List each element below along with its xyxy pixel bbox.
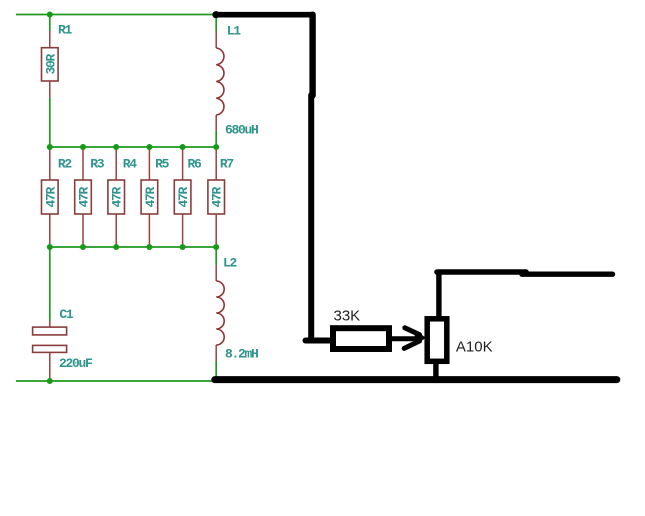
svg-text:L1: L1 [227, 24, 242, 39]
svg-text:680uH: 680uH [225, 123, 258, 138]
svg-text:30R: 30R [43, 53, 58, 74]
svg-text:47R: 47R [143, 186, 158, 207]
svg-text:A10K: A10K [456, 338, 493, 355]
svg-text:47R: 47R [43, 186, 58, 207]
svg-text:R3: R3 [90, 157, 105, 172]
svg-text:33K: 33K [334, 307, 361, 324]
svg-text:R4: R4 [123, 157, 138, 172]
svg-text:R6: R6 [188, 157, 203, 172]
svg-text:R5: R5 [155, 157, 170, 172]
svg-text:C1: C1 [59, 307, 74, 322]
svg-text:R7: R7 [220, 157, 234, 172]
svg-text:R2: R2 [58, 157, 73, 172]
svg-text:220uF: 220uF [59, 356, 93, 371]
svg-text:R1: R1 [58, 23, 73, 38]
svg-text:8.2mH: 8.2mH [225, 347, 258, 362]
svg-text:L2: L2 [223, 256, 238, 271]
svg-text:47R: 47R [176, 186, 191, 207]
svg-text:47R: 47R [77, 186, 92, 207]
svg-text:47R: 47R [210, 186, 225, 207]
svg-text:47R: 47R [110, 186, 125, 207]
